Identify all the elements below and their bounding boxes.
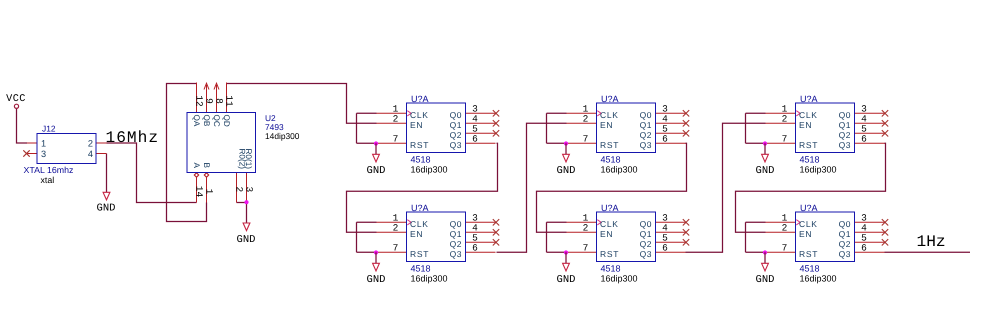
svg-text:J12: J12 [42,124,56,134]
svg-text:Q2: Q2 [839,130,851,140]
svg-text:Q1: Q1 [450,120,462,130]
svg-text:2: 2 [234,187,245,193]
svg-text:6: 6 [861,243,867,254]
svg-text:GND: GND [237,234,256,246]
svg-text:CLK: CLK [799,110,818,120]
svg-text:4518: 4518 [411,264,431,274]
svg-text:CLK: CLK [600,110,619,120]
svg-text:4: 4 [88,149,93,159]
svg-text:XTAL 16mhz: XTAL 16mhz [24,165,74,175]
svg-text:GND: GND [367,165,386,177]
svg-text:Q3: Q3 [450,249,462,259]
svg-text:2: 2 [782,114,788,125]
svg-text:EN: EN [799,229,812,239]
svg-text:1: 1 [41,139,46,149]
svg-text:6: 6 [662,134,668,145]
svg-text:6: 6 [662,243,668,254]
svg-text:U?A: U?A [411,94,429,104]
svg-text:3: 3 [41,149,46,159]
svg-text:CLK: CLK [410,219,429,229]
svg-text:RST: RST [799,140,818,150]
svg-text:Q2: Q2 [450,130,462,140]
svg-text:7: 7 [782,134,788,145]
svg-text:4518: 4518 [411,155,431,165]
svg-text:QD: QD [222,115,231,127]
svg-text:xtal: xtal [41,175,55,185]
svg-text:GND: GND [557,274,576,286]
svg-text:CLK: CLK [600,219,619,229]
svg-text:7: 7 [393,134,399,145]
svg-text:Q3: Q3 [450,140,462,150]
svg-text:CLK: CLK [410,110,429,120]
svg-text:EN: EN [600,120,613,130]
svg-text:2: 2 [583,114,589,125]
svg-text:GND: GND [557,165,576,177]
svg-text:VCC: VCC [6,94,26,105]
svg-text:16dip300: 16dip300 [601,274,638,284]
svg-text:8: 8 [214,98,225,104]
svg-text:Q1: Q1 [450,229,462,239]
svg-text:Q3: Q3 [640,249,652,259]
svg-text:A: A [192,163,201,169]
svg-text:7: 7 [583,243,589,254]
svg-text:4518: 4518 [601,155,621,165]
svg-text:U?A: U?A [601,94,619,104]
svg-text:14dip300: 14dip300 [265,131,300,141]
svg-text:RST: RST [600,249,619,259]
svg-text:2: 2 [782,223,788,234]
svg-text:Q0: Q0 [450,110,462,120]
svg-text:GND: GND [367,274,386,286]
svg-text:Q2: Q2 [450,239,462,249]
svg-text:QA: QA [192,115,201,127]
svg-text:1Hz: 1Hz [917,233,946,251]
svg-text:Q1: Q1 [839,120,851,130]
svg-text:RST: RST [410,249,429,259]
svg-text:Q0: Q0 [640,110,652,120]
svg-text:11: 11 [224,95,235,107]
svg-text:Q0: Q0 [839,110,851,120]
svg-text:16dip300: 16dip300 [411,274,448,284]
svg-text:1: 1 [204,189,215,195]
svg-text:GND: GND [756,165,775,177]
svg-text:Q2: Q2 [640,239,652,249]
svg-text:2: 2 [583,223,589,234]
svg-text:Q3: Q3 [839,140,851,150]
svg-text:U?A: U?A [411,203,429,213]
svg-text:Q2: Q2 [839,239,851,249]
svg-text:3: 3 [244,187,255,193]
svg-text:Q3: Q3 [640,140,652,150]
svg-text:Q0: Q0 [839,219,851,229]
svg-text:Q1: Q1 [640,229,652,239]
svg-text:Q3: Q3 [839,249,851,259]
svg-text:7: 7 [393,243,399,254]
svg-text:U?A: U?A [800,94,818,104]
svg-text:Q0: Q0 [640,219,652,229]
svg-text:GND: GND [97,203,116,215]
svg-text:4518: 4518 [601,264,621,274]
svg-text:Q0: Q0 [450,219,462,229]
svg-text:EN: EN [799,120,812,130]
svg-text:16dip300: 16dip300 [601,165,638,175]
svg-text:4518: 4518 [800,155,820,165]
svg-text:2: 2 [393,114,399,125]
svg-text:7: 7 [782,243,788,254]
svg-text:QB: QB [202,115,211,127]
svg-text:16dip300: 16dip300 [800,165,837,175]
svg-text:2: 2 [393,223,399,234]
svg-text:14: 14 [194,186,205,198]
svg-text:Q1: Q1 [839,229,851,239]
svg-text:16dip300: 16dip300 [411,165,448,175]
svg-text:EN: EN [410,120,423,130]
svg-text:RST: RST [410,140,429,150]
svg-text:U?A: U?A [601,203,619,213]
svg-text:B: B [202,163,211,169]
svg-text:GND: GND [756,274,775,286]
svg-text:16Mhz: 16Mhz [106,129,160,147]
svg-text:QC: QC [212,115,221,127]
svg-text:6: 6 [861,134,867,145]
svg-text:16dip300: 16dip300 [800,274,837,284]
svg-text:EN: EN [600,229,613,239]
svg-text:EN: EN [410,229,423,239]
svg-text:7: 7 [583,134,589,145]
svg-text:4518: 4518 [800,264,820,274]
svg-text:6: 6 [472,134,478,145]
svg-text:RST: RST [600,140,619,150]
svg-text:R0(1): R0(1) [244,149,253,170]
svg-text:9: 9 [204,98,215,104]
svg-text:6: 6 [472,243,478,254]
svg-text:Q1: Q1 [640,120,652,130]
svg-text:2: 2 [88,139,93,149]
svg-text:U?A: U?A [800,203,818,213]
svg-text:RST: RST [799,249,818,259]
svg-text:CLK: CLK [799,219,818,229]
svg-text:Q2: Q2 [640,130,652,140]
svg-text:12: 12 [194,95,205,107]
